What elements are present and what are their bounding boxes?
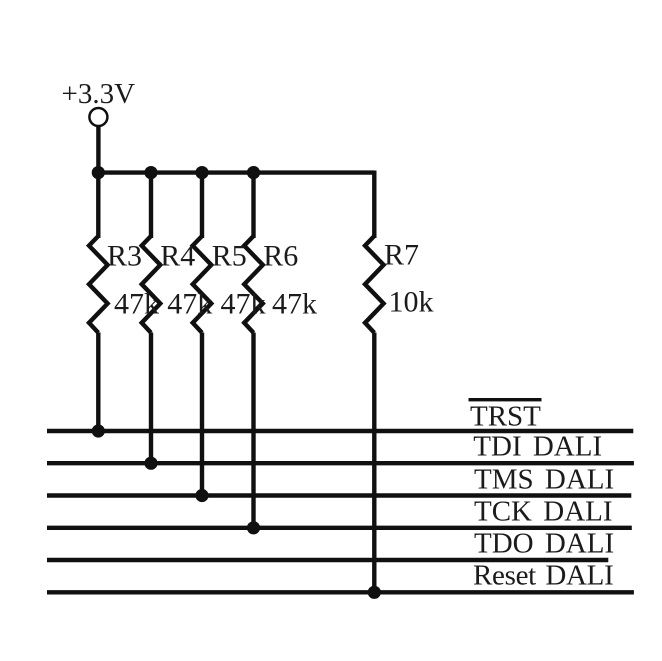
svg-text:R3: R3 [107, 240, 142, 273]
svg-text:TDO DALI: TDO DALI [474, 527, 614, 559]
svg-text:10k: 10k [389, 286, 434, 319]
svg-text:R4: R4 [160, 240, 195, 273]
svg-text:R5: R5 [212, 240, 247, 273]
svg-text:47k: 47k [272, 288, 317, 321]
svg-text:47k: 47k [221, 288, 266, 321]
svg-text:+3.3V: +3.3V [62, 78, 136, 110]
svg-text:47k: 47k [114, 288, 159, 321]
svg-text:R7: R7 [384, 239, 419, 272]
svg-text:TCK DALI: TCK DALI [474, 495, 613, 527]
svg-text:TMS DALI: TMS DALI [474, 463, 614, 495]
svg-text:TRST: TRST [470, 401, 541, 433]
svg-text:47k: 47k [167, 288, 212, 321]
svg-text:R6: R6 [263, 240, 298, 273]
svg-text:Reset DALI: Reset DALI [473, 560, 613, 592]
svg-text:TDI DALI: TDI DALI [473, 430, 602, 462]
